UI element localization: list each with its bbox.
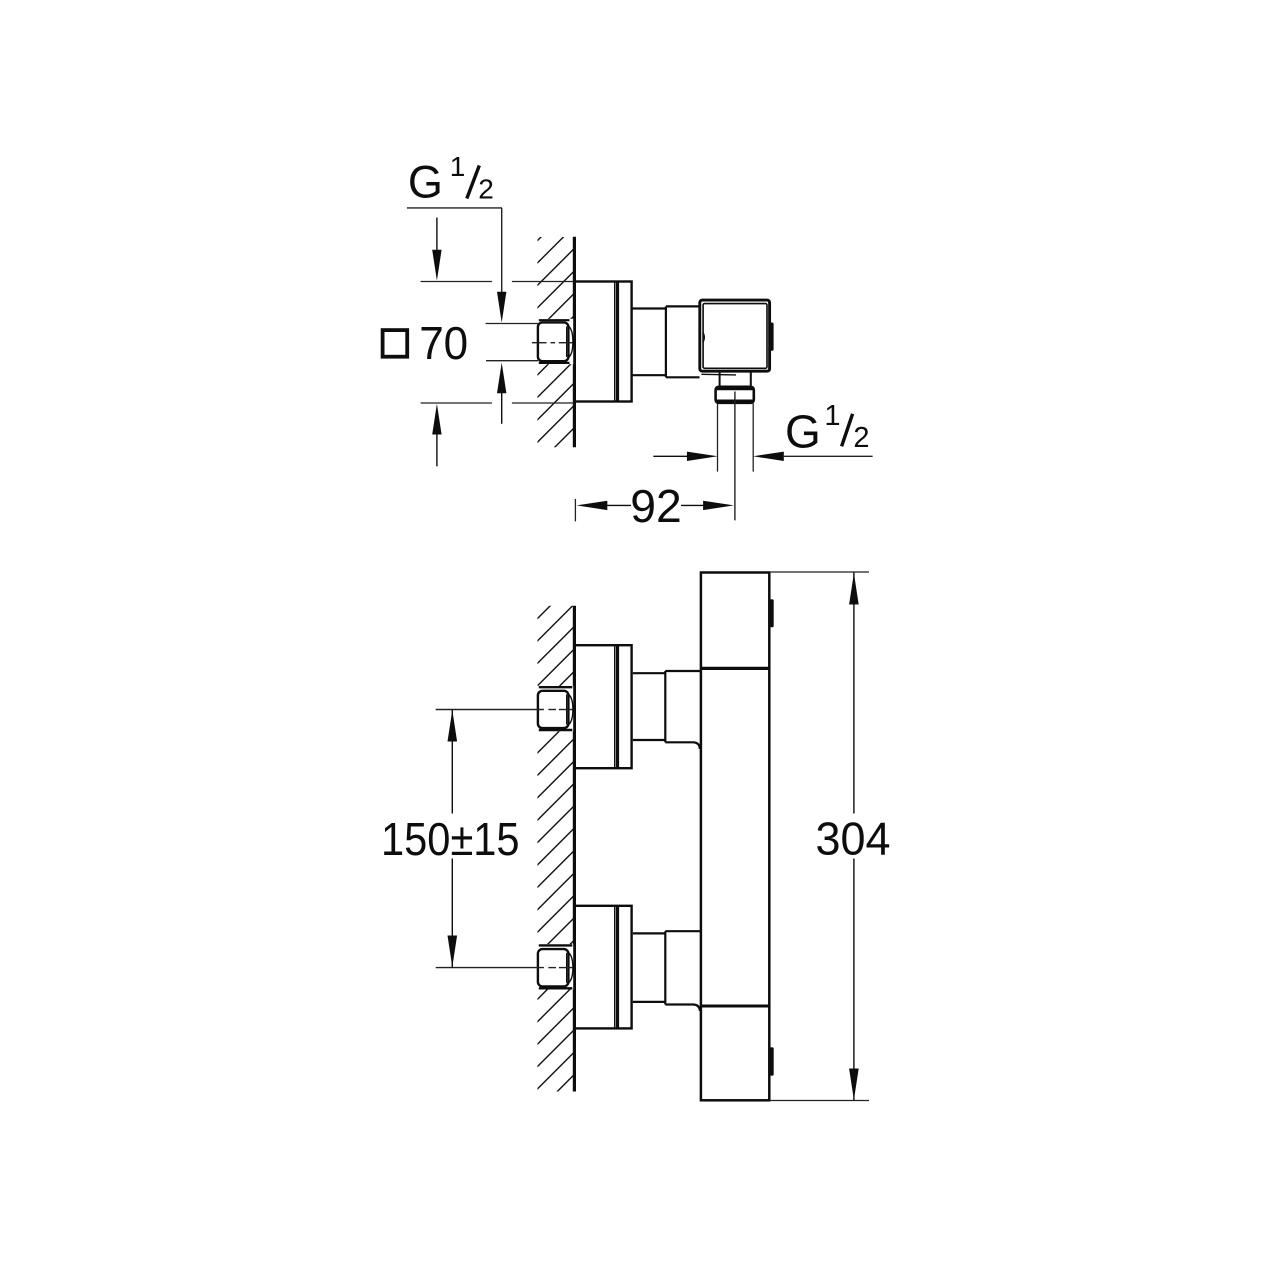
- fitting bottom dim line: [486, 360, 538, 362]
- wall line (top view): [573, 237, 576, 448]
- svg-text:1: 1: [450, 151, 466, 182]
- upper escutcheon plate (lower view): [574, 645, 631, 768]
- body divider top: [700, 667, 769, 670]
- lower inlet neck (lower view): [633, 933, 666, 1002]
- svg-text:150±15: 150±15: [381, 813, 520, 865]
- svg-text:70: 70: [419, 317, 468, 369]
- 150 +/- 15 dimension: [380, 710, 521, 968]
- upper wall fitting nut (lower view): [537, 686, 573, 731]
- valve neck (top view): [632, 309, 666, 376]
- G 1/2 dimension (right): [653, 452, 872, 461]
- 304 dimension: [771, 572, 894, 1101]
- main body: [701, 573, 769, 1101]
- pipe edge extension lines: [718, 404, 754, 472]
- lower wall fitting nut (lower view): [537, 944, 573, 989]
- lower escutcheon plate (lower view): [574, 906, 631, 1029]
- body tab upper: [770, 599, 774, 627]
- wall fitting nut (top view): [537, 319, 573, 364]
- dim arrow up (fitting bottom, x=501.7): [497, 363, 506, 424]
- handle bottom lip: [702, 373, 737, 376]
- handle side tab (top view): [769, 323, 773, 351]
- lower inlet mid block (lower view): [665, 931, 700, 1011]
- svg-text:1: 1: [824, 400, 840, 432]
- label G 1/2 (top left): [408, 151, 494, 208]
- wall hatching (top view): [0, 200, 802, 1100]
- upper inlet mid block (lower view): [665, 671, 700, 749]
- pipe centre line: [734, 392, 736, 521]
- svg-text:2: 2: [853, 422, 869, 454]
- arrow down to fitting top line: [497, 292, 506, 323]
- svg-text:G: G: [785, 405, 821, 457]
- svg-text:92: 92: [630, 480, 682, 532]
- dim arrow up (plate bottom, x=436.9): [432, 404, 441, 467]
- body divider bottom: [700, 1005, 769, 1008]
- square symbol: [383, 330, 408, 357]
- svg-text:G: G: [408, 157, 443, 208]
- svg-text:2: 2: [478, 174, 494, 205]
- label G 1/2 (right): [785, 400, 869, 457]
- thermostat handle (top view): [700, 300, 770, 371]
- lower nut centre line: [436, 967, 573, 969]
- extension line bottom of escutcheon (y=403): [421, 402, 574, 404]
- body tab lower: [770, 1047, 774, 1076]
- nut centre line (dash-dot, top view): [532, 342, 573, 344]
- upper inlet neck (lower view): [633, 673, 666, 740]
- 92 dimension: [575, 480, 734, 532]
- wall line (lower view): [573, 606, 576, 1092]
- svg-text:304: 304: [816, 813, 891, 865]
- upper nut centre line: [436, 709, 573, 711]
- fitting top dim line: [486, 323, 539, 325]
- wall hatching (lower view): [56, 200, 1280, 1100]
- leader line for G 1/2 (top left): [407, 208, 502, 294]
- escutcheon plate (top view): [574, 282, 631, 402]
- valve mid body (top view): [666, 306, 700, 377]
- extension line top of escutcheon (y=281.5): [421, 281, 574, 283]
- hose collar nut: [716, 387, 754, 403]
- dim arrow down (plate top, x=436.9): [432, 218, 441, 281]
- shower outlet neck: [720, 372, 751, 387]
